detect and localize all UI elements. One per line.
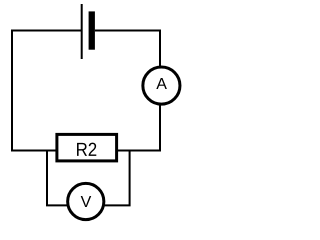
wire top-left segment [11, 30, 81, 32]
wire left side [11, 30, 13, 152]
voltmeter label V [81, 196, 92, 207]
ammeter A1 [143, 67, 180, 104]
resistor R2 [57, 134, 117, 161]
wire voltmeter branch (left down, across, right up) [47, 151, 130, 206]
ammeter label A [156, 78, 167, 89]
voltmeter V1 [68, 183, 104, 219]
wire bottom segment [11, 150, 161, 152]
resistor value label R2 [77, 143, 96, 156]
battery short plate (negative) [89, 11, 95, 49]
battery long plate (positive) [81, 4, 83, 59]
wire top-right segment [95, 30, 161, 32]
wire right side [159, 30, 161, 152]
